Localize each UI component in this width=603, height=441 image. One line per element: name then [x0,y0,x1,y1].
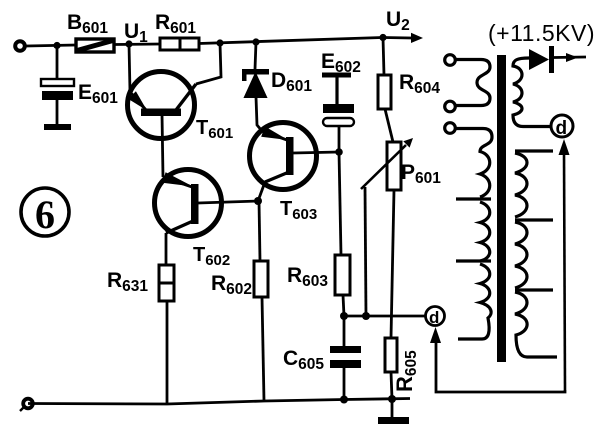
winding B primary lower [456,129,492,340]
wire R603 to d node [343,295,344,316]
resistor R604 [378,75,391,109]
winding A primary top [456,60,490,106]
node junction C605 ground [340,396,348,404]
zener diode D601 [242,69,269,97]
wire T602 emitter to R631 [165,233,168,265]
wire T602 base junction to R602 [259,201,260,261]
resistor R602 [254,261,268,297]
wire R602 to ground rail [262,297,264,401]
resistor R631 [159,265,174,301]
node junction R605 ground rail [388,395,396,403]
wire U2 arrow [383,33,423,43]
transistor T602 [155,170,259,237]
svg-text:d: d [556,118,568,139]
wire T603 base junction to R603 [339,152,341,255]
transistor T603 [250,123,340,190]
node junction right of R601 [216,39,223,46]
wire T601 collector to top rail [196,43,221,84]
wire P601 wiper to d wire [365,187,366,316]
wire T603 collector to T602 base junction [258,182,265,201]
transistor T601 [128,72,197,178]
wire U1 to T601 emitter [129,44,130,92]
transformer terminal t3 [445,123,456,134]
wire d upper arrow down to corner [559,139,570,390]
capacitor E601 [41,79,74,124]
node junction above D601 [252,38,259,45]
ground under R605 [378,399,409,424]
wire arrow into d lower [430,327,441,343]
winding C secondary HV top [513,58,551,127]
node junction R603/C605 [340,312,348,320]
node U1 junction [125,40,132,47]
potentiometer P601 [361,138,413,190]
capacitor C605 [330,316,361,399]
node junction U2/R604 [379,34,386,41]
wire R605 to ground [391,372,392,399]
transformer terminal t1 [445,55,456,66]
node junction at x57 [53,42,60,49]
terminal d lower [426,307,445,328]
node T603 base junction [335,148,343,156]
wire P601 to R605 [391,190,394,338]
svg-text:d: d [429,308,439,327]
circled 6 [21,188,69,237]
wire R631 to ground rail [166,301,169,404]
wire bottom right return [436,341,565,392]
svg-text:(+11.5KV): (+11.5KV) [488,20,595,46]
ground under E601 [44,124,71,130]
wire top rail B601 to R601 [114,43,160,46]
wire U2 junction to R604 [383,38,384,76]
input terminal top-left [15,41,25,51]
bottom-left terminal [20,399,33,411]
wire top rail to D601 [255,42,256,69]
transformer terminal t2 [445,101,456,112]
winding D secondary lower [515,151,557,357]
ground rail bottom [28,399,410,405]
transformer core [497,55,506,362]
wire R604 to P601 [385,109,393,142]
resistor R605 [385,338,397,372]
node T602 base junction [254,197,262,205]
svg-text:6: 6 [35,192,55,237]
wire top rail left segment [26,45,76,46]
wire top rail R601 to U2 arrow [199,38,383,44]
resistor R603 [335,255,350,295]
terminal d upper [551,115,573,139]
HV diode [529,46,586,73]
resistor R601 [160,38,199,50]
wire to d terminal [344,315,425,318]
wire junction to E601 [56,46,59,80]
wire D601 to T603 emitter [256,97,262,131]
node junction P601 wiper [362,312,370,320]
capacitor E602 [322,73,354,153]
fuse B601 [76,39,114,52]
